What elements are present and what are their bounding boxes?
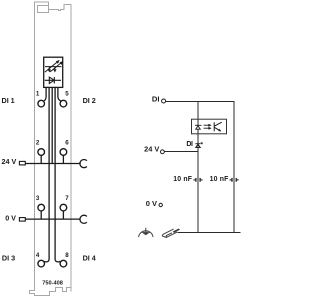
optocoupler light arrows xyxy=(204,125,209,128)
svg-text:DI 4: DI 4 xyxy=(83,254,96,263)
wire w4 (box to terminal 8) xyxy=(55,88,60,262)
wire w1 (box to terminal 1) xyxy=(44,88,46,101)
DIN rail symbol xyxy=(162,229,177,237)
terminal 1 xyxy=(38,100,45,107)
svg-text:DI: DI xyxy=(186,141,193,148)
capacitor C2 10nF xyxy=(230,178,239,182)
optocoupler box U1 xyxy=(192,119,227,134)
svg-text:2: 2 xyxy=(36,140,40,147)
24V continuation arc xyxy=(80,160,87,168)
schematic: vertical wire V1 xyxy=(197,102,199,233)
svg-text:8: 8 xyxy=(65,252,69,259)
optocoupler LED xyxy=(195,125,202,129)
svg-text:DI: DI xyxy=(152,95,160,104)
svg-text:10 nF: 10 nF xyxy=(173,176,192,183)
module housing outline xyxy=(30,2,72,296)
svg-text:5: 5 xyxy=(65,91,69,98)
svg-text:4: 4 xyxy=(36,252,40,259)
functional earth symbol xyxy=(139,228,153,237)
terminal 8 xyxy=(60,260,67,267)
diode symbol in box xyxy=(45,77,61,83)
svg-text:*: * xyxy=(201,141,204,148)
svg-text:3: 3 xyxy=(36,195,40,202)
svg-text:24 V: 24 V xyxy=(144,144,159,153)
terminal 5 xyxy=(60,100,67,107)
svg-text:DI 3: DI 3 xyxy=(2,254,15,263)
0V continuation arc xyxy=(80,215,87,223)
wire w3 (box to 24V rail) xyxy=(51,88,53,164)
schematic: 24 V terminal xyxy=(161,150,165,154)
schematic: DI input terminal xyxy=(162,99,166,103)
terminal 2 xyxy=(38,149,45,156)
LED arrows (up-right) xyxy=(45,62,61,72)
terminal 3 xyxy=(38,204,45,211)
svg-text:24 V: 24 V xyxy=(2,157,17,166)
svg-text:DI 1: DI 1 xyxy=(2,96,15,105)
0V field rail xyxy=(25,218,80,220)
svg-text:0 V: 0 V xyxy=(146,199,157,208)
24V field rail xyxy=(25,163,80,165)
svg-text:7: 7 xyxy=(65,195,69,202)
svg-text:10 nF: 10 nF xyxy=(210,176,229,183)
24V feed square xyxy=(19,161,25,165)
schematic: vertical wire V2 xyxy=(233,102,235,233)
svg-text:0 V: 0 V xyxy=(5,213,16,222)
earth bottom wire xyxy=(178,232,241,234)
LED function box xyxy=(44,57,63,87)
terminal 6 xyxy=(60,149,67,156)
svg-text:6: 6 xyxy=(65,140,69,147)
svg-text:1: 1 xyxy=(36,90,40,97)
schematic: 24 V wire xyxy=(164,151,198,153)
module top slot rectangle xyxy=(38,6,49,13)
terminal 4 xyxy=(38,260,45,267)
wire w5 (box to terminal 5) xyxy=(58,88,61,101)
LED pair symbol in box xyxy=(45,67,62,71)
capacitor C1 10nF xyxy=(194,178,203,182)
status LED symbol xyxy=(195,144,200,148)
wire w2 (box to terminal 4) xyxy=(44,88,49,262)
schematic: 0 V terminal xyxy=(159,203,162,206)
svg-text:750-408: 750-408 xyxy=(42,280,63,286)
svg-text:DI 2: DI 2 xyxy=(83,96,96,105)
optocoupler phototransistor xyxy=(214,122,222,131)
schematic: DI horizontal wire xyxy=(165,101,234,103)
0V feed square xyxy=(19,218,25,222)
terminal 7 xyxy=(60,204,67,211)
